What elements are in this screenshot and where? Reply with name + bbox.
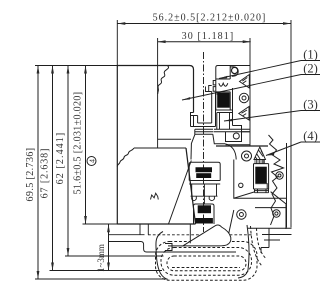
dimension 30 line bbox=[158, 41, 251, 43]
label 4 leader bbox=[266, 142, 301, 156]
U channel flange bbox=[195, 129, 214, 134]
dimension 30 right arrow bbox=[243, 40, 251, 43]
ratchet slot white band bbox=[216, 92, 230, 94]
label 3 arrow bbox=[224, 119, 232, 121]
piece B slot line bbox=[203, 184, 205, 204]
U channel bottom bbox=[191, 123, 216, 127]
bezel bottom bbox=[248, 228, 292, 253]
dashed riser bbox=[251, 226, 266, 266]
label 2 leader bbox=[182, 75, 301, 101]
dimension 1-3mm bottom arrow bbox=[107, 263, 110, 271]
dimension 62 bottom arrow bbox=[67, 248, 70, 256]
body front slant edge bbox=[168, 161, 191, 225]
small box under triangle bbox=[255, 160, 265, 164]
label 2 arrow bbox=[182, 97, 190, 100]
svg-text:67 [2.638]: 67 [2.638] bbox=[40, 148, 51, 199]
piece B bracket bbox=[194, 204, 215, 224]
trapezoid jagged left bbox=[117, 148, 134, 167]
label 4 underline bbox=[301, 141, 320, 143]
funnel side verticals bbox=[192, 184, 217, 196]
extension line left x117 bbox=[116, 20, 118, 66]
clamp foot circle bbox=[233, 133, 239, 139]
dashed frame inner bbox=[167, 256, 246, 271]
label 4 arrow bbox=[266, 153, 274, 156]
piece A bracket bbox=[189, 162, 220, 180]
clamp screw lobe bbox=[230, 67, 238, 77]
label 2 underline bbox=[301, 74, 320, 76]
trapezoid right slant bbox=[186, 148, 196, 224]
extension line x157 bbox=[157, 38, 159, 148]
dimension 62 top arrow bbox=[67, 66, 70, 74]
dimension 69.5 top arrow bbox=[37, 66, 40, 74]
svg-text:1~3mm: 1~3mm bbox=[96, 244, 106, 272]
clamp lower inner bbox=[220, 113, 230, 130]
svg-text:51.6±0.5 [2.031±0.020]: 51.6±0.5 [2.031±0.020] bbox=[73, 92, 84, 195]
dimension 51.6 bottom extension bbox=[83, 223, 119, 225]
svg-text:69.5 [2.736]: 69.5 [2.736] bbox=[25, 148, 36, 202]
dimension 69.5 bottom extension bbox=[35, 278, 168, 280]
part4 lower posts bbox=[255, 189, 269, 193]
dimension 56.2 right arrow bbox=[283, 22, 291, 25]
U channel right wall cap bbox=[206, 86, 212, 92]
body break line top bbox=[158, 66, 169, 95]
clamp ratchet teeth bbox=[213, 81, 216, 92]
dimension 56.2 line bbox=[117, 23, 291, 25]
piece B black bottom bbox=[195, 218, 213, 224]
dimension 67 line bbox=[52, 66, 54, 271]
lower bracket top edge bbox=[216, 145, 268, 147]
ratchet side walls bbox=[216, 88, 233, 113]
funnel bell left bbox=[191, 129, 195, 159]
dimension 69.5 bottom arrow bbox=[37, 271, 40, 279]
extension line top y65.5 bbox=[35, 65, 117, 67]
note circle 4 bbox=[87, 157, 96, 166]
horn bottom line left bbox=[168, 245, 183, 247]
label 3 underline bbox=[301, 110, 320, 112]
extension line right x291 bbox=[290, 20, 292, 228]
svg-text:(4): (4) bbox=[303, 129, 318, 143]
horn sail shape bbox=[183, 225, 231, 246]
lower bracket left edge bbox=[229, 160, 287, 235]
wedge triangle 2 bbox=[239, 107, 249, 121]
piece B bracket drop line bbox=[189, 225, 191, 244]
dimension 51.6 line bbox=[85, 66, 87, 225]
dashed frame middle bbox=[161, 248, 252, 276]
centerline bbox=[203, 52, 205, 232]
clamp top body bbox=[216, 66, 230, 92]
dimension 56.2 left arrow bbox=[117, 22, 125, 25]
step hook under body bbox=[109, 242, 237, 253]
bezel face inner bbox=[286, 143, 288, 228]
dimension 62 bottom extension bbox=[65, 255, 164, 257]
part4 black seal bbox=[255, 167, 266, 183]
clamp foot bbox=[226, 126, 250, 145]
part4 bracket bbox=[254, 164, 269, 189]
wedge triangle 1 bbox=[240, 75, 250, 89]
extension line x250 panel front bbox=[249, 38, 251, 146]
funnel bell right bbox=[213, 134, 226, 144]
washer screw bbox=[242, 151, 252, 161]
funnel notches bbox=[191, 196, 218, 200]
dimension 1-3mm top arrow bbox=[107, 224, 110, 232]
dimension 62 line bbox=[67, 66, 69, 257]
dimension 30 left arrow bbox=[158, 40, 166, 43]
U channel right wall bbox=[212, 92, 216, 127]
dimension 67 bottom arrow bbox=[51, 263, 54, 271]
label 1 arrow bbox=[219, 76, 227, 79]
dimension 51.6 bottom arrow bbox=[84, 216, 87, 224]
dimension 69.5 line bbox=[37, 66, 39, 280]
ratchet slot black bbox=[217, 93, 230, 108]
label 1 underline bbox=[301, 60, 320, 62]
svg-text:(1): (1) bbox=[303, 48, 318, 62]
piece A black bars bbox=[196, 167, 213, 172]
svg-text:(3): (3) bbox=[303, 98, 318, 112]
clamp lower body bbox=[214, 110, 250, 132]
U channel left wall bbox=[191, 113, 198, 127]
bezel jagged break bbox=[269, 135, 284, 225]
wedge circles bbox=[239, 93, 248, 102]
body bottom bbox=[117, 223, 195, 225]
body outline bbox=[117, 66, 193, 225]
hidden edge dashed bbox=[148, 234, 253, 236]
dimension 67 bottom extension bbox=[50, 270, 163, 272]
dashed frame outer bbox=[156, 242, 258, 281]
hatch triangle 3 bbox=[254, 147, 266, 160]
label 3 leader bbox=[224, 111, 301, 122]
svg-text:62 [2.441]: 62 [2.441] bbox=[55, 132, 66, 185]
svg-text:56.2±0.5[2.212±0.020]: 56.2±0.5[2.212±0.020] bbox=[153, 13, 267, 24]
svg-text:4: 4 bbox=[87, 159, 96, 163]
part4 white box bbox=[255, 184, 267, 189]
clamp screw circle bbox=[232, 67, 238, 73]
label 1 leader bbox=[219, 61, 301, 79]
dimension 1-3mm line bbox=[108, 224, 110, 270]
dimension 51.6 top arrow bbox=[84, 66, 87, 74]
step box under body bbox=[109, 225, 149, 235]
svg-text:30 [1.181]: 30 [1.181] bbox=[182, 31, 235, 42]
piece B black top bbox=[198, 205, 211, 213]
bezel inner corner arc bbox=[225, 144, 236, 160]
svg-text:(2): (2) bbox=[303, 62, 318, 76]
piece A bottom band bbox=[189, 181, 220, 185]
right guide solid bbox=[238, 225, 249, 278]
cable guide hook bbox=[156, 232, 172, 280]
washer bottom bbox=[237, 210, 246, 219]
screw circle lower bbox=[273, 210, 280, 217]
body ledge y139 bbox=[158, 138, 191, 140]
small circle left bbox=[239, 183, 243, 187]
screw circle right bbox=[276, 172, 283, 179]
trapezoid top y148 bbox=[134, 147, 186, 149]
body bottom tabs bbox=[151, 193, 159, 199]
dashed cable line bbox=[172, 267, 240, 269]
clamp spring arcs bbox=[219, 83, 228, 86]
dimension 67 top arrow bbox=[51, 66, 54, 74]
clamp top rail bbox=[230, 65, 250, 67]
